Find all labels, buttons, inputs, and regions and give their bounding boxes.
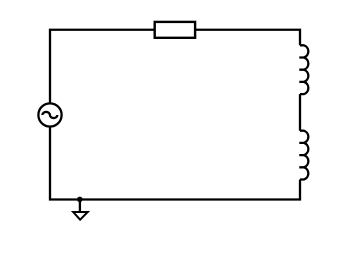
junction dot at ground node — [77, 197, 83, 203]
ground triangle — [71, 211, 90, 221]
wire between inductors — [299, 94, 301, 131]
wire top-right: resistor right to top-right corner down to inductor L1 top — [195, 30, 300, 46]
sine wave inside source — [42, 112, 57, 118]
resistor R1 — [155, 22, 195, 38]
inductor L2 — [299, 131, 308, 180]
wire bottom: L2 bottom, bottom-right corner, bottom wire, up to source bottom — [50, 127, 300, 200]
wire top-left: source top to top-left corner to resistor left — [50, 30, 155, 104]
inductor L1 — [299, 45, 308, 94]
AC source V1 — [38, 103, 61, 126]
ground stem — [79, 200, 81, 213]
